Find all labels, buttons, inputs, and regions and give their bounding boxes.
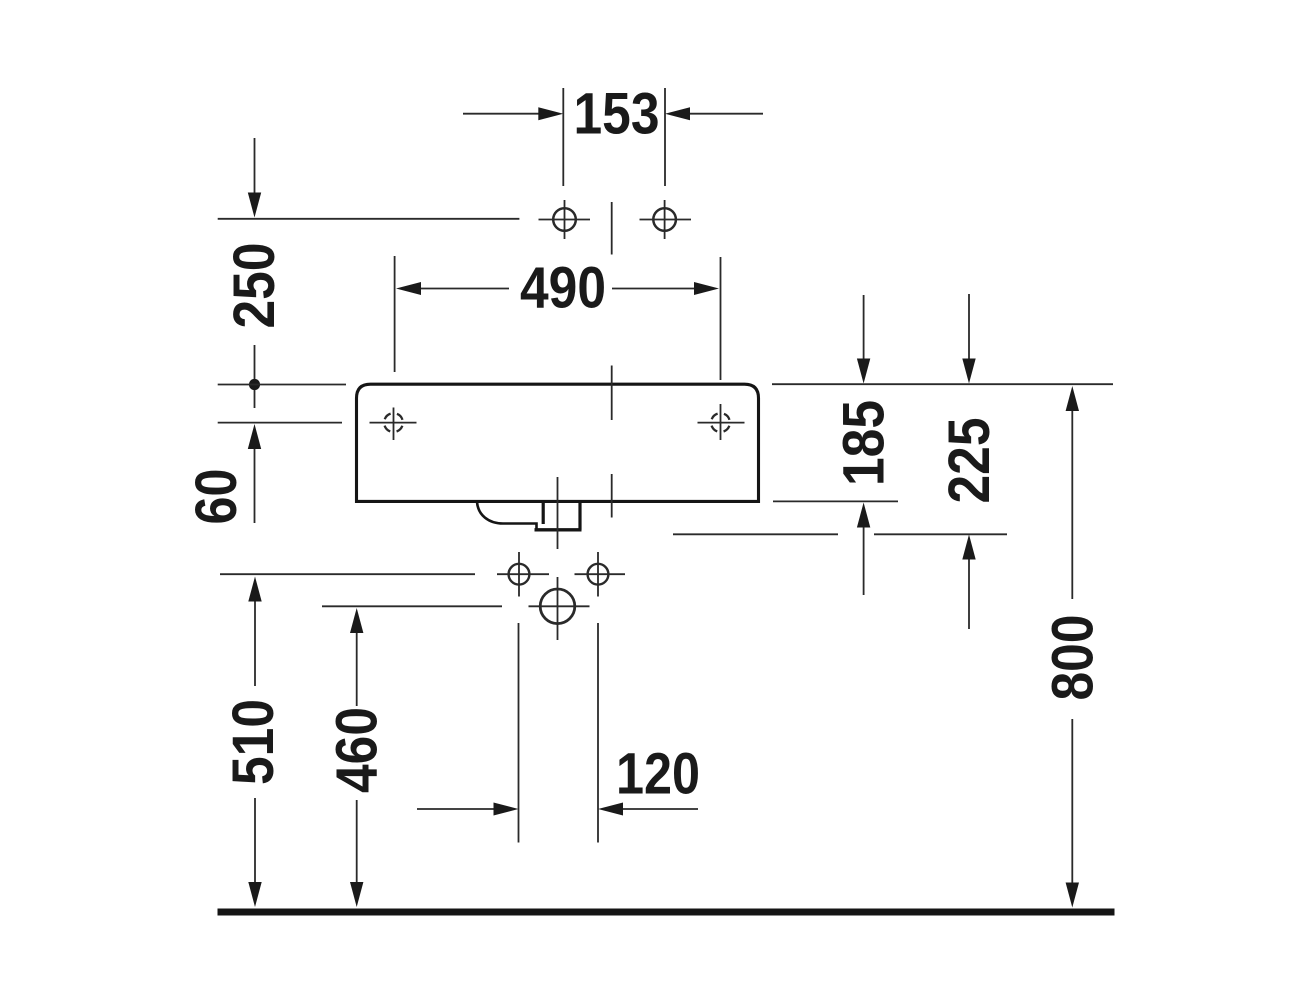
- dimension 800: lower arrow line: [1066, 719, 1079, 908]
- lower hole right: circle: [588, 564, 609, 585]
- svg-text:225: 225: [937, 418, 1002, 504]
- drain bottom reference line y=534 right segment: [874, 533, 1007, 535]
- dimension 120: right extension line: [597, 623, 599, 843]
- dimension 490: right extension line: [720, 257, 722, 380]
- dimension 120: left extension line: [518, 623, 520, 843]
- mounting holes reference line y=219: [218, 218, 520, 220]
- svg-text:60: 60: [184, 469, 249, 525]
- mounting hole left: crosshair: [539, 200, 591, 239]
- lower hole left: crosshair: [497, 552, 549, 597]
- dimension 225: top arrow line: [962, 294, 975, 384]
- faucet hole left: dashed circle: [384, 413, 403, 432]
- washbasin outline: [357, 384, 759, 501]
- svg-text:490: 490: [520, 256, 606, 321]
- svg-text:460: 460: [325, 707, 390, 793]
- dimension 153: left extension line: [562, 88, 564, 186]
- dimension 460: lower arrow line: [350, 800, 363, 907]
- dimension 153: right arrow line: [665, 107, 763, 120]
- drain bottom reference line y=534 left segment: [673, 533, 838, 535]
- faucet hole left: crosshair: [370, 408, 417, 441]
- basin top reference line right y=384: [772, 383, 1113, 385]
- faucet hole right: crosshair: [698, 404, 745, 440]
- svg-text:510: 510: [221, 699, 286, 785]
- reference line at basin top (dot line): [218, 384, 346, 386]
- dimension 250: lower line with end dot: [249, 345, 260, 408]
- dimension 510: upper arrow line: [248, 577, 261, 687]
- lower hole left: circle: [509, 564, 530, 585]
- mounting hole right: crosshair: [640, 200, 692, 239]
- dimension 120: right arrow line: [598, 803, 698, 816]
- dimension 153: right extension line: [664, 88, 666, 186]
- svg-text:120: 120: [616, 742, 700, 807]
- drain big hole: horizontal crosshair: [529, 605, 590, 607]
- basin bottom reference line right y=501: [773, 500, 898, 502]
- dimension 490: right arrow line: [612, 282, 719, 295]
- faucet hole right: dashed circle: [711, 413, 730, 432]
- faucet holes reference line y=423: [218, 422, 342, 424]
- drain horn curve: [477, 502, 537, 530]
- svg-text:153: 153: [574, 82, 660, 147]
- basin vertical centerline segment lower: [611, 474, 613, 518]
- drain centerline: [557, 477, 559, 549]
- svg-text:250: 250: [222, 243, 287, 329]
- dimension 800: upper arrow line: [1066, 386, 1079, 599]
- dimension 185: bottom arrow line: [857, 503, 870, 596]
- dimension 185: top arrow line: [857, 295, 870, 384]
- basin vertical centerline segment top (between mounting holes): [611, 202, 613, 255]
- dimension 490: left extension line: [394, 256, 396, 372]
- dimension 510: lower arrow line: [248, 798, 261, 907]
- svg-text:185: 185: [832, 400, 897, 486]
- mounting hole left: circle: [553, 208, 576, 231]
- drain cup left wall: [542, 501, 545, 524]
- svg-text:800: 800: [1040, 615, 1105, 701]
- mounting hole right: circle: [653, 208, 676, 231]
- lower holes reference line y=574: [220, 573, 475, 575]
- dimension 60: arrow line: [248, 424, 261, 523]
- dimension 490: left arrow line: [396, 282, 509, 295]
- dimension 250: top arrow line: [248, 138, 261, 218]
- drain big hole: circle: [540, 589, 575, 624]
- drain cup bottom: [535, 528, 582, 531]
- dimension 120: left arrow line: [417, 803, 519, 816]
- lower hole right: crosshair: [575, 552, 626, 597]
- big hole reference line y=606: [322, 605, 502, 607]
- drain big hole: vertical crosshair: [557, 577, 559, 640]
- dimension 225: bottom arrow line: [962, 535, 975, 630]
- basin vertical centerline segment middle: [611, 366, 613, 421]
- dimension 460: upper arrow line: [350, 608, 363, 706]
- floor line: [218, 909, 1115, 916]
- dimension 153: left arrow line: [463, 107, 563, 120]
- drain cup right wall: [578, 501, 581, 530]
